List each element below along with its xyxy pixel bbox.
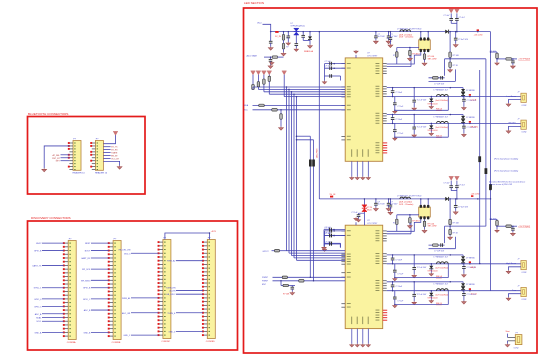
label U ref — [367, 53, 370, 55]
wire 5V bus — [319, 198, 445, 200]
label D value — [428, 298, 439, 300]
net label GPIO — [263, 251, 270, 253]
ground — [412, 107, 417, 110]
label C value — [417, 294, 427, 296]
wire bus lower — [292, 255, 346, 257]
svg-text:D? SBR3U: D? SBR3U — [466, 257, 475, 259]
junction — [462, 263, 464, 265]
net label +5V TPS — [518, 226, 530, 228]
wire — [302, 37, 304, 40]
svg-text:C? 1uF: C? 1uF — [397, 133, 404, 135]
resistor R series — [275, 249, 280, 252]
label D value — [291, 25, 305, 27]
ground — [281, 52, 286, 56]
power pullup — [256, 71, 261, 75]
label C value — [395, 286, 403, 288]
wire — [430, 97, 432, 99]
jumper link — [478, 156, 481, 162]
junction — [462, 96, 464, 98]
svg-text:KEY: KEY — [56, 161, 61, 163]
wire — [430, 123, 432, 125]
label C value — [467, 127, 477, 129]
pin — [383, 253, 387, 255]
svg-text:R?: R? — [286, 47, 288, 49]
resistor R series — [282, 276, 287, 279]
capacitor C — [295, 44, 299, 46]
capacitor C — [391, 91, 395, 93]
ground — [308, 45, 313, 49]
wire — [450, 20, 452, 23]
svg-text:D? SBR3U: D? SBR3U — [466, 117, 475, 119]
wire — [429, 248, 456, 250]
wire — [454, 69, 456, 81]
wire — [42, 250, 64, 252]
label C value — [467, 267, 477, 269]
junction — [413, 281, 415, 283]
capacitor C — [301, 35, 305, 37]
label C value — [351, 212, 358, 214]
net label — [34, 306, 42, 308]
wire — [324, 243, 326, 248]
label D value — [466, 284, 475, 286]
capacitor C — [462, 126, 466, 128]
wire — [358, 217, 360, 219]
resistor R — [282, 35, 285, 41]
label C value — [458, 207, 469, 209]
junction — [392, 263, 394, 265]
svg-text:BOOT: BOOT — [85, 251, 91, 253]
wire — [507, 341, 509, 344]
net label — [166, 294, 176, 296]
junction — [296, 96, 298, 98]
wire — [252, 87, 254, 90]
net label — [84, 309, 91, 312]
wire +5V_LED vertical — [490, 32, 492, 199]
wire — [91, 287, 109, 289]
pin — [383, 263, 387, 265]
label D value — [304, 50, 314, 53]
svg-text:C? 10nF: C? 10nF — [395, 119, 403, 121]
pin — [341, 272, 345, 274]
net label — [111, 147, 118, 149]
wire — [396, 225, 398, 232]
capacitor C — [330, 62, 332, 66]
inductor L — [437, 121, 449, 123]
note text — [494, 158, 519, 161]
capacitor C — [330, 242, 332, 246]
ground top — [354, 217, 358, 220]
svg-text:GPIO_C: GPIO_C — [83, 299, 91, 301]
label C value — [397, 133, 404, 135]
label L note — [399, 202, 412, 204]
resistor R series — [259, 104, 264, 107]
label J name2 — [521, 132, 526, 134]
svg-text:SCL: SCL — [244, 110, 249, 112]
wire — [392, 93, 394, 97]
label C value — [467, 294, 477, 296]
wire — [450, 188, 452, 191]
svg-text:CON28D: CON28D — [206, 341, 215, 343]
pin — [383, 112, 387, 114]
wire — [272, 250, 287, 252]
junction — [431, 96, 433, 98]
junction — [309, 31, 311, 32]
pin — [383, 95, 387, 97]
wire — [396, 48, 398, 52]
label C value — [387, 38, 389, 40]
resistor R series — [299, 280, 304, 283]
wire — [394, 105, 396, 111]
pin — [383, 282, 387, 284]
wire — [462, 122, 464, 125]
wire — [450, 281, 463, 283]
net label vertical — [317, 148, 319, 158]
wire — [91, 268, 109, 270]
capacitor C — [455, 186, 459, 188]
ground — [495, 229, 499, 232]
svg-text:UART_TX: UART_TX — [32, 264, 42, 267]
section title BLUETOOTH CONNECTORS — [28, 112, 68, 116]
svg-text:TC 1uF 50V: TC 1uF 50V — [417, 100, 427, 102]
junction — [431, 290, 433, 292]
wire jumper net — [309, 136, 311, 277]
junction — [420, 31, 422, 32]
net label — [469, 121, 478, 128]
svg-text:+5V TPS(4V): +5V TPS(4V) — [518, 59, 530, 61]
pin — [383, 70, 387, 72]
svg-text:C? 1uF: C? 1uF — [325, 242, 332, 244]
wire — [283, 49, 285, 52]
svg-text:GPIO_5: GPIO_5 — [34, 306, 42, 308]
net label — [436, 275, 443, 278]
wire — [392, 115, 394, 118]
svg-text:(4uH 1.1A Red): (4uH 1.1A Red) — [436, 99, 449, 102]
label D value — [466, 117, 475, 119]
svg-text:HB_DRL_EN: HB_DRL_EN — [119, 249, 131, 251]
label R value — [453, 55, 460, 57]
resistor R — [496, 220, 499, 225]
wire — [430, 128, 432, 132]
svg-text:GND_A: GND_A — [35, 331, 43, 334]
inductor L1 — [400, 30, 411, 32]
net label PWM3 — [262, 284, 267, 286]
wire — [413, 269, 415, 274]
svg-text:C? 4u7: C? 4u7 — [443, 15, 449, 17]
wire bus lower — [297, 259, 346, 261]
pin — [341, 139, 345, 141]
power +5V — [455, 9, 460, 13]
junction — [333, 235, 335, 237]
wire — [324, 64, 326, 76]
ground — [393, 110, 397, 113]
capacitor C — [374, 36, 378, 38]
net label — [169, 290, 176, 292]
junction — [469, 123, 471, 125]
ground — [412, 301, 417, 304]
junction — [375, 198, 377, 200]
junction — [333, 67, 335, 69]
svg-text:R?: R? — [393, 55, 395, 57]
resistor R pullup — [268, 76, 271, 81]
wire channel A — [387, 281, 451, 283]
svg-text:SET_LEW: SET_LEW — [428, 226, 437, 228]
label D value — [428, 271, 439, 273]
junction — [388, 31, 390, 32]
wire — [462, 115, 464, 116]
wire — [450, 13, 452, 18]
svg-text:L? NR6045T 4u7: L? NR6045T 4u7 — [434, 257, 448, 259]
connector J5 Low Beam — [521, 93, 526, 102]
net label — [111, 150, 118, 152]
pin — [383, 235, 387, 237]
pin — [341, 88, 345, 90]
wire — [410, 55, 412, 66]
wire — [388, 38, 390, 40]
label R value — [412, 53, 419, 55]
wire — [165, 233, 210, 240]
svg-text:CON28C: CON28C — [161, 341, 170, 343]
pin — [383, 68, 387, 70]
pin — [341, 135, 345, 137]
svg-text:C? 1nF 50V: C? 1nF 50V — [434, 83, 445, 85]
svg-text:P?: P? — [96, 138, 99, 140]
wire — [463, 291, 465, 294]
svg-text:C? 1uF: C? 1uF — [325, 61, 332, 63]
wire — [103, 135, 115, 144]
label R value — [393, 55, 395, 57]
svg-text:T? STUD: T? STUD — [414, 28, 423, 30]
power pullup — [251, 71, 256, 75]
wire — [430, 269, 432, 273]
capacitor C — [287, 36, 291, 38]
wire — [103, 155, 110, 157]
label J name — [507, 96, 517, 98]
wire — [413, 296, 415, 301]
net label SCL — [244, 110, 249, 112]
svg-text:R? 1K: R? 1K — [453, 65, 459, 67]
label C value — [390, 34, 392, 36]
svg-text:R06_A: R06_A — [436, 108, 443, 111]
svg-text:HEADER 10: HEADER 10 — [73, 171, 86, 174]
svg-text:DCR ~ 22mohm): DCR ~ 22mohm) — [399, 37, 414, 39]
label P name — [514, 347, 519, 349]
net label 5V_IN lower — [330, 194, 336, 198]
pin — [341, 86, 345, 88]
capacitor C — [393, 130, 397, 132]
label J ref — [517, 259, 519, 261]
wire — [264, 56, 272, 58]
ground — [350, 177, 354, 180]
inductor L3 — [400, 197, 411, 199]
connector J4 discovery — [202, 237, 215, 343]
wire — [456, 181, 458, 186]
junction — [390, 31, 392, 32]
junction — [427, 31, 429, 32]
svg-text:ADC_IN1: ADC_IN1 — [122, 312, 131, 315]
wire — [449, 57, 451, 62]
junction — [209, 232, 211, 234]
label C value — [390, 201, 392, 203]
svg-text:R? 10K: R? 10K — [453, 55, 460, 57]
svg-text:TURN_EN: TURN_EN — [166, 287, 176, 289]
wire — [270, 61, 272, 65]
pin — [423, 49, 425, 52]
junction — [364, 198, 366, 200]
net label +5V TPS — [518, 59, 530, 61]
wire — [387, 66, 411, 68]
junction — [392, 123, 394, 125]
capacitor C — [330, 234, 332, 238]
wire — [375, 32, 377, 36]
label L note — [436, 126, 449, 129]
resistor R — [449, 219, 452, 224]
wire — [429, 77, 445, 79]
svg-text:J?: J? — [517, 118, 519, 120]
label R value — [490, 51, 497, 53]
ground — [322, 246, 327, 249]
svg-text:EN?: EN? — [262, 284, 267, 286]
svg-text:(P) select BOOST (for the seco: (P) select BOOST (for the second device — [489, 181, 526, 184]
wire — [508, 336, 516, 338]
svg-text:Low Beam: Low Beam — [507, 96, 517, 98]
svg-text:VDD_3: VDD_3 — [124, 253, 131, 255]
label D value — [428, 130, 439, 132]
wire — [455, 199, 457, 206]
svg-text:+3V3: +3V3 — [211, 231, 217, 233]
pin — [341, 276, 345, 278]
diode TVS — [429, 99, 433, 102]
pin — [341, 93, 345, 95]
svg-text:C? 1uF: C? 1uF — [397, 300, 404, 302]
wire — [463, 101, 465, 106]
net label — [168, 331, 176, 333]
pin — [383, 285, 387, 287]
wire — [509, 294, 521, 298]
wire — [375, 205, 377, 207]
svg-text:TC 1uF 50V: TC 1uF 50V — [417, 267, 427, 269]
pin — [341, 258, 345, 260]
junction — [431, 123, 433, 125]
ground — [386, 208, 391, 212]
svg-text:GND_D: GND_D — [168, 331, 176, 333]
diode bridge D2 — [294, 28, 299, 34]
label T ref — [414, 28, 423, 30]
junction — [302, 31, 304, 32]
pin no-connect — [383, 317, 388, 319]
section box LED SECTION — [244, 8, 538, 353]
wire — [295, 46, 297, 49]
label L note2 — [399, 204, 414, 206]
wire — [309, 40, 311, 45]
capacitor C — [393, 270, 397, 272]
pin — [341, 63, 345, 65]
wire — [280, 119, 282, 126]
net label Vbat aux — [506, 330, 510, 333]
wire — [42, 331, 64, 333]
label J ref — [517, 91, 519, 93]
wire — [491, 218, 498, 220]
label J name — [509, 123, 517, 125]
wire — [450, 87, 463, 89]
wire — [447, 123, 449, 137]
svg-text:HB_DRL: HB_DRL — [471, 126, 478, 128]
wire — [392, 88, 394, 91]
svg-text:L? NR6045T 47uH: L? NR6045T 47uH — [397, 28, 414, 30]
wire — [270, 43, 272, 47]
junction — [496, 58, 498, 60]
wire — [268, 81, 270, 94]
ground — [388, 44, 393, 48]
net label — [32, 264, 42, 267]
junction — [496, 225, 498, 227]
capacitor C — [330, 74, 332, 78]
svg-text:AT_SEL: AT_SEL — [52, 154, 60, 157]
svg-text:(P) In dual phase modality: (P) In dual phase modality — [494, 169, 519, 172]
pin no-connect — [383, 147, 388, 149]
wire — [455, 40, 457, 44]
wire — [252, 75, 254, 85]
wire — [496, 219, 498, 220]
pin — [341, 306, 345, 308]
junction — [477, 31, 479, 32]
wire — [42, 313, 64, 315]
wire — [512, 59, 514, 61]
label J name — [512, 290, 516, 292]
svg-text:ADC_B: ADC_B — [84, 309, 91, 312]
capacitor C — [454, 38, 458, 40]
pin — [341, 230, 345, 232]
junction — [296, 139, 298, 141]
svg-text:HB_B: HB_B — [471, 267, 477, 269]
pin — [383, 230, 387, 232]
junction — [512, 58, 514, 60]
wire — [387, 233, 411, 235]
wire — [396, 57, 398, 64]
junction — [392, 254, 394, 256]
svg-text:C?: C? — [387, 38, 389, 40]
net label — [436, 303, 443, 305]
junction — [296, 135, 298, 137]
svg-text:VCC_BT: VCC_BT — [111, 159, 120, 161]
wire — [359, 212, 365, 214]
wire — [91, 309, 109, 311]
svg-text:L? NR6045T 4u7: L? NR6045T 4u7 — [434, 284, 448, 286]
ground — [448, 69, 453, 73]
resistor R — [282, 43, 285, 49]
power +5V — [455, 177, 460, 181]
resistor R pullup — [263, 79, 266, 84]
label R value — [428, 224, 435, 226]
wire vertical net — [479, 70, 481, 264]
capacitor C — [455, 19, 459, 21]
ground — [505, 344, 510, 347]
svg-text:PWM_A2: PWM_A2 — [167, 260, 176, 263]
net label — [167, 313, 176, 315]
wire — [463, 128, 465, 133]
resistor R sense — [423, 221, 426, 226]
resistor R — [433, 244, 439, 247]
wire — [388, 205, 390, 207]
ground — [117, 166, 122, 170]
net label — [111, 156, 118, 158]
svg-text:GPIO_B: GPIO_B — [83, 288, 91, 290]
wire — [394, 132, 396, 138]
wire — [176, 330, 203, 332]
wire — [263, 24, 271, 31]
wire — [462, 289, 464, 292]
pin — [383, 240, 387, 242]
pin — [427, 49, 429, 52]
